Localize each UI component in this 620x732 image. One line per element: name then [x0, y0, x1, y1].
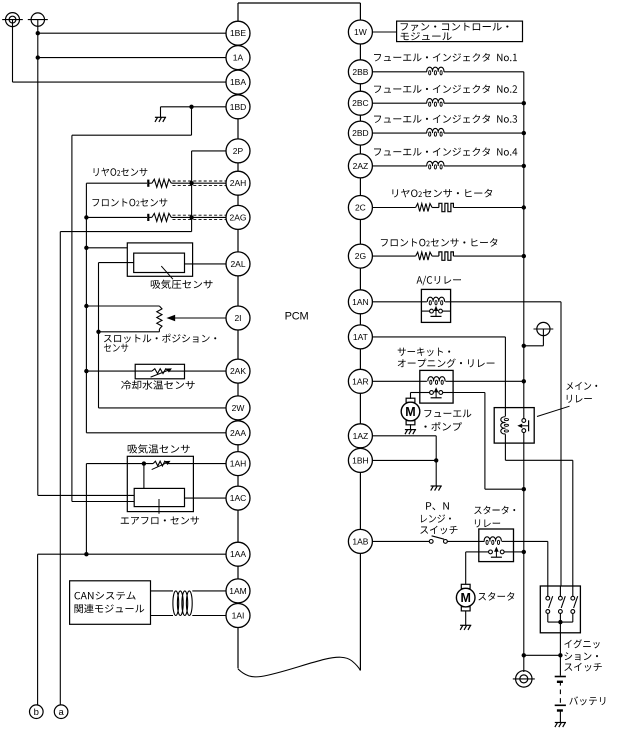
svg-text:1AR: 1AR [352, 376, 369, 386]
svg-text:1AI: 1AI [232, 611, 245, 621]
svg-text:2AH: 2AH [230, 178, 247, 188]
svg-text:M: M [405, 405, 415, 419]
svg-text:PCM: PCM [285, 311, 309, 323]
svg-text:1AH: 1AH [230, 459, 247, 469]
svg-text:1BD: 1BD [230, 102, 247, 112]
svg-text:2I: 2I [234, 313, 241, 323]
svg-text:2AA: 2AA [230, 428, 246, 438]
svg-text:1W: 1W [354, 27, 367, 37]
svg-text:1BH: 1BH [352, 455, 369, 465]
svg-text:2G: 2G [355, 251, 366, 261]
svg-text:2AK: 2AK [230, 366, 246, 376]
svg-text:2BD: 2BD [352, 128, 369, 138]
svg-text:b: b [34, 707, 39, 718]
svg-text:2AG: 2AG [229, 212, 246, 222]
svg-text:2W: 2W [232, 403, 245, 413]
svg-text:2AL: 2AL [230, 259, 245, 269]
svg-text:1AM: 1AM [229, 586, 246, 596]
svg-text:1AB: 1AB [352, 536, 368, 546]
svg-text:2P: 2P [233, 146, 244, 156]
svg-text:1AC: 1AC [230, 493, 247, 503]
svg-text:2BC: 2BC [352, 98, 369, 108]
svg-text:2AZ: 2AZ [353, 161, 369, 171]
svg-text:M: M [460, 591, 470, 605]
svg-text:1AT: 1AT [353, 332, 368, 342]
svg-text:2C: 2C [355, 203, 366, 213]
svg-text:a: a [58, 707, 64, 718]
svg-text:2BB: 2BB [352, 67, 368, 77]
svg-text:1A: 1A [233, 53, 244, 63]
svg-text:1AZ: 1AZ [353, 431, 369, 441]
svg-text:1AA: 1AA [230, 549, 246, 559]
svg-text:1BE: 1BE [230, 28, 246, 38]
svg-text:1AN: 1AN [352, 297, 369, 307]
svg-text:1BA: 1BA [230, 77, 246, 87]
